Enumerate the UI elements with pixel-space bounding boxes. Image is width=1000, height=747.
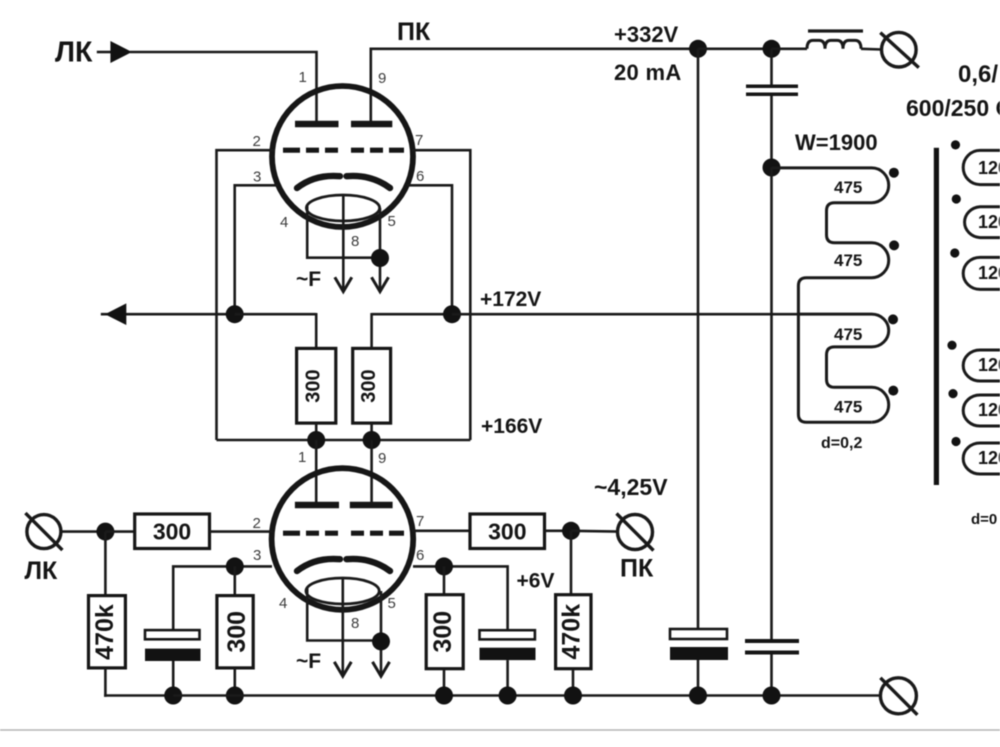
- svg-text:6: 6: [416, 547, 424, 564]
- wire B+ rail to choke: [772, 47, 808, 50]
- svg-text:d=0,2: d=0,2: [821, 435, 862, 452]
- svg-text:4: 4: [280, 214, 288, 231]
- tube V2 envelope: [272, 468, 414, 610]
- arrowhead input ЛК: [110, 41, 132, 63]
- node junction pin6: [435, 557, 453, 575]
- wire 470k left bottom to rail: [104, 668, 107, 697]
- node junction 166 right: [363, 431, 381, 449]
- wire V2 heater pin8 arrow shaft: [341, 579, 344, 677]
- svg-text:+166V: +166V: [481, 415, 542, 438]
- wire B+ rail middle: [698, 47, 772, 50]
- svg-text:7: 7: [415, 132, 423, 149]
- node phase dot primary 3: [888, 314, 898, 324]
- svg-text:300: 300: [488, 519, 526, 545]
- wire primary node down: [770, 168, 773, 640]
- wire 172V node to transformer: [452, 313, 798, 316]
- arrowhead output left: [105, 303, 126, 325]
- node phase dot secondary 1: [951, 140, 960, 149]
- wire 166 node to V2 anode a: [315, 440, 318, 503]
- svg-text:475: 475: [834, 325, 862, 344]
- svg-text:470k: 470k: [558, 604, 586, 660]
- wire V2 pin7 to R4: [412, 529, 470, 532]
- svg-text:~F: ~F: [296, 650, 321, 673]
- transformer T1 secondary winding 3: [963, 257, 1000, 289]
- svg-text:20 mA: 20 mA: [614, 60, 682, 85]
- connector ground right: [880, 678, 917, 715]
- transformer T1 secondary winding 2: [965, 207, 1000, 238]
- wire R6 bottom to rail: [234, 668, 237, 696]
- svg-text:ЛК: ЛК: [25, 557, 59, 585]
- svg-text:3: 3: [253, 169, 261, 186]
- resistor R2 300: [353, 348, 391, 423]
- wire V1 heater pin8 arrow shaft: [342, 196, 345, 292]
- resistor R5 470k left: [89, 596, 126, 668]
- wire V1 heater pin4: [307, 205, 380, 258]
- transformer T1 core bar: [934, 148, 939, 485]
- capacitor C5 film top plate: [745, 639, 799, 643]
- inductor L1 choke: [807, 40, 861, 48]
- svg-text:W=1900: W=1900: [795, 130, 878, 155]
- node junction rail 470k right: [564, 687, 582, 705]
- anode V2b: [350, 502, 393, 509]
- wire 172V to R1 top: [235, 313, 317, 316]
- svg-text:+6V: +6V: [517, 570, 555, 593]
- wire input stub: [97, 51, 112, 54]
- svg-text:475: 475: [834, 251, 862, 270]
- capacitor C5 bottom plate: [745, 651, 799, 655]
- resistor R3 300 grid stopper left: [135, 514, 210, 549]
- node phase dot secondary 3: [950, 248, 959, 257]
- wire B+ left drop: [697, 49, 700, 628]
- anode V1a: [295, 121, 339, 128]
- svg-text:300: 300: [303, 369, 325, 402]
- wire output line left with arrow: [101, 313, 235, 316]
- svg-text:ПК: ПК: [397, 18, 431, 46]
- node junction 166 left: [307, 431, 325, 449]
- transformer T1 secondary winding 6: [963, 443, 1000, 474]
- wire C1 to transformer node: [770, 96, 773, 168]
- capacitor C2 electrolytic left plus plate: [145, 630, 200, 639]
- svg-text:300: 300: [153, 519, 191, 545]
- connector ЛК input bottom: [25, 513, 62, 550]
- node V1 pin5 heater junction: [371, 249, 389, 267]
- svg-text:d=0: d=0: [971, 511, 997, 528]
- wire pin3 node to R6: [234, 566, 237, 595]
- wire R8 bottom to rail: [443, 669, 446, 696]
- resistor R7 470k right: [556, 595, 591, 669]
- cathode V2a arc: [297, 559, 340, 571]
- heater V2 ellipse: [306, 578, 379, 604]
- svg-text:~F: ~F: [296, 268, 321, 291]
- wire R2 bottom to 166 rail: [370, 423, 373, 440]
- wire choke to connector: [861, 47, 882, 50]
- svg-text:120: 120: [978, 212, 1000, 232]
- svg-text:120: 120: [978, 355, 1000, 375]
- svg-text:4: 4: [279, 595, 287, 612]
- capacitor C4 electrolytic PSU plus plate: [670, 629, 727, 639]
- svg-text:1: 1: [299, 69, 307, 86]
- wire C5 bottom to rail: [770, 655, 773, 696]
- node junction ПК: [562, 522, 580, 540]
- connector X1 output top: [880, 32, 919, 67]
- wire 166 node to V2 anode b: [370, 440, 373, 503]
- wire V2 heater pin5 arrow shaft: [380, 591, 383, 676]
- wire C2 bottom to rail: [172, 661, 175, 696]
- capacitor C4 minus plate: [670, 647, 728, 660]
- svg-text:8: 8: [351, 233, 359, 250]
- capacitor C3 minus plate: [480, 648, 536, 660]
- node junction rail C2: [164, 687, 182, 705]
- arrowhead heater V2 left: [334, 662, 351, 676]
- resistor R1 300: [297, 348, 336, 423]
- wire node to ПК connector: [571, 529, 618, 532]
- node junction rail C5: [763, 687, 781, 705]
- node junction 172V left: [226, 305, 244, 323]
- svg-text:2: 2: [253, 515, 261, 532]
- wire V1 cathode pin3 down to out node: [235, 185, 278, 314]
- svg-text:470k: 470k: [91, 604, 119, 660]
- capacitor C3 electrolytic right plus plate: [480, 630, 535, 639]
- node phase dot primary 2: [889, 240, 899, 250]
- wire R1 bottom to 166 rail: [315, 423, 318, 440]
- tube V1 envelope: [272, 86, 413, 227]
- wire input to grid pin1: [130, 52, 317, 122]
- arrowhead heater V2 right: [373, 662, 390, 676]
- svg-text:8: 8: [351, 615, 359, 632]
- border bottom gray line: [0, 729, 1000, 731]
- svg-text:300: 300: [429, 611, 457, 653]
- wire V1 grid pin2 down to 166 rail: [217, 150, 275, 440]
- wire 470k right bottom: [572, 669, 575, 696]
- wire R3 to V2 grid pin2: [210, 530, 273, 533]
- svg-text:0,6/: 0,6/: [958, 61, 998, 88]
- resistor R6 300 cathode left: [217, 596, 253, 668]
- node phase dot primary 4: [888, 386, 898, 396]
- node phase dot secondary 5: [948, 389, 957, 398]
- svg-text:3: 3: [253, 547, 261, 564]
- node phase dot secondary 6: [951, 437, 960, 446]
- transformer T1 primary windings 1-2: [772, 168, 889, 422]
- svg-text:475: 475: [834, 398, 862, 417]
- wire C3 bottom to rail: [506, 660, 509, 695]
- svg-text:6: 6: [416, 168, 424, 185]
- wire C4 bottom to rail: [697, 660, 700, 696]
- heater V1 ellipse: [306, 195, 379, 221]
- svg-text:9: 9: [378, 450, 386, 467]
- transformer T1 primary windings 3-4: [798, 314, 888, 422]
- svg-text:120: 120: [978, 158, 1000, 178]
- node junction rail R8: [435, 687, 453, 705]
- wire V2 pin3 cathode left: [173, 566, 272, 629]
- cathode V1a arc: [297, 176, 340, 188]
- svg-text:120: 120: [978, 400, 1000, 420]
- node junction rail R6: [226, 687, 244, 705]
- resistor R4 300 grid stopper right: [470, 514, 545, 549]
- svg-text:9: 9: [378, 70, 386, 87]
- svg-text:300: 300: [358, 369, 380, 402]
- capacitor C2 minus plate: [145, 649, 201, 661]
- svg-text:+332V: +332V: [614, 22, 679, 47]
- capacitor C1 coupling top plate: [746, 84, 798, 88]
- cathode V2b arc: [347, 559, 391, 571]
- anode V2a: [295, 502, 339, 509]
- svg-text:5: 5: [388, 213, 396, 230]
- wire pin6 node to R8: [443, 566, 446, 594]
- svg-text:300: 300: [223, 611, 251, 653]
- node junction input bottom: [96, 523, 114, 541]
- anode V1b: [351, 121, 392, 128]
- node V2 pin5 heater junction: [372, 632, 390, 650]
- arrowhead heater V1 right: [372, 277, 389, 291]
- wire connector to node: [61, 530, 105, 533]
- node junction primary top: [763, 159, 781, 177]
- wire V1 cathode pin6 down to out node: [407, 185, 452, 314]
- svg-text:7: 7: [416, 513, 424, 530]
- transformer T1 secondary winding 1: [963, 150, 1000, 184]
- node phase dot primary 1: [889, 168, 899, 178]
- svg-text:120: 120: [978, 263, 1000, 283]
- wire node to 470k right: [570, 531, 573, 595]
- resistor R8 300 cathode right: [426, 595, 463, 669]
- node junction rail C3: [499, 687, 517, 705]
- node junction B+ left: [689, 40, 707, 58]
- svg-text:600/250 О: 600/250 О: [906, 95, 1000, 121]
- svg-text:+172V: +172V: [480, 288, 541, 311]
- node junction pin3: [226, 557, 244, 575]
- node junction 172V right: [443, 305, 461, 323]
- connector ПК bottom: [617, 514, 654, 551]
- svg-text:2: 2: [253, 133, 261, 150]
- node phase dot secondary 2: [952, 194, 961, 203]
- svg-text:~4,25V: ~4,25V: [594, 474, 668, 500]
- svg-text:5: 5: [388, 595, 396, 612]
- cathode V1b arc: [347, 176, 391, 188]
- wire V2 heater pin4: [307, 588, 381, 641]
- svg-text:ПК: ПК: [620, 555, 654, 583]
- wire R2 top to 172V node: [370, 313, 373, 348]
- grid V1 dashed: [283, 148, 404, 153]
- node phase dot secondary 4: [947, 341, 956, 350]
- svg-text:475: 475: [834, 178, 862, 197]
- wire B+ right drop to cap: [770, 49, 773, 85]
- wire 470k left from node: [104, 532, 107, 596]
- wire V2 pin6 cathode right: [413, 566, 508, 629]
- wire node to R3: [105, 530, 134, 533]
- node junction B+ right: [763, 40, 781, 58]
- wire V1 grid pin7 down to 166 rail: [412, 150, 470, 440]
- wire ground rail: [173, 694, 880, 697]
- grid V2 dashed: [283, 531, 404, 536]
- wire V1 heater pin5 arrow shaft: [379, 208, 382, 292]
- wire 166V rail: [217, 439, 471, 442]
- core bar of choke: [808, 29, 863, 32]
- wire R4 to node: [545, 529, 572, 532]
- svg-text:1: 1: [298, 449, 306, 466]
- transformer T1 secondary winding 5: [963, 395, 1000, 426]
- wire pin9 to B+ rail: [371, 49, 698, 122]
- capacitor C1 bottom plate: [746, 92, 798, 96]
- svg-text:120: 120: [978, 448, 1000, 468]
- node junction rail C4: [689, 687, 707, 705]
- transformer T1 secondary winding 4: [963, 350, 1000, 381]
- svg-text:ЛК: ЛК: [55, 37, 93, 69]
- arrowhead heater V1 left: [335, 277, 352, 291]
